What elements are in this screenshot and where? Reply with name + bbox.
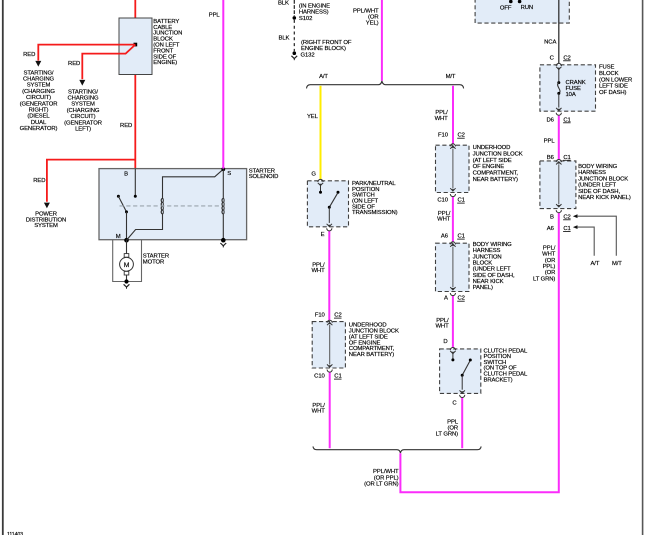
svg-text:NEAR BATTERY): NEAR BATTERY): [349, 352, 394, 358]
svg-text:BLK: BLK: [278, 0, 289, 6]
svg-text:SIDE OF DASH,: SIDE OF DASH,: [578, 189, 620, 195]
svg-text:PPL/WHT: PPL/WHT: [353, 8, 379, 14]
svg-text:FUSE: FUSE: [599, 65, 614, 71]
svg-text:S: S: [227, 171, 231, 177]
svg-text:C10: C10: [314, 374, 325, 380]
svg-text:(OR LT GRN): (OR LT GRN): [364, 482, 398, 488]
svg-text:NEAR KICK: NEAR KICK: [473, 279, 504, 285]
svg-text:(GENERATOR: (GENERATOR: [64, 120, 102, 126]
svg-text:CIRCUIT): CIRCUIT): [26, 95, 51, 101]
svg-text:ENGINE): ENGINE): [153, 60, 177, 66]
svg-text:PPL: PPL: [544, 139, 556, 145]
svg-text:LT GRN): LT GRN): [436, 432, 458, 438]
svg-text:HARNESS): HARNESS): [299, 9, 329, 15]
svg-text:E: E: [321, 232, 325, 238]
svg-text:YEL: YEL: [307, 114, 319, 120]
svg-text:A6: A6: [441, 234, 449, 240]
svg-text:(CHARGING: (CHARGING: [67, 108, 100, 114]
svg-text:WHT: WHT: [437, 217, 451, 223]
svg-text:B: B: [124, 171, 128, 177]
svg-text:PPL): PPL): [543, 264, 556, 270]
svg-text:M/T: M/T: [446, 74, 456, 80]
svg-text:RUN: RUN: [521, 5, 533, 11]
svg-text:OF DASH): OF DASH): [599, 90, 626, 96]
svg-text:OFF: OFF: [500, 5, 512, 11]
svg-text:G: G: [311, 172, 316, 178]
svg-text:(UNDER LEFT: (UNDER LEFT: [578, 183, 616, 189]
svg-text:(OR: (OR: [368, 15, 379, 21]
svg-text:SYSTEM: SYSTEM: [71, 102, 95, 108]
svg-text:PPL/: PPL/: [543, 245, 556, 251]
svg-text:BODY WIRING: BODY WIRING: [578, 164, 618, 170]
svg-text:RED: RED: [68, 61, 80, 67]
svg-text:SYSTEM: SYSTEM: [27, 83, 51, 89]
svg-text:YEL): YEL): [366, 21, 379, 27]
svg-text:D6: D6: [546, 117, 554, 123]
svg-text:MOTOR: MOTOR: [143, 260, 164, 266]
svg-text:PANEL): PANEL): [473, 285, 493, 291]
svg-text:PPL: PPL: [447, 419, 459, 425]
svg-text:WHT: WHT: [312, 409, 326, 415]
svg-text:(OR: (OR: [448, 426, 459, 432]
svg-text:CHARGING: CHARGING: [68, 96, 99, 102]
svg-text:SOLENOID: SOLENOID: [249, 174, 279, 180]
svg-text:LEFT): LEFT): [75, 127, 91, 133]
svg-text:PPL/WHT: PPL/WHT: [373, 469, 399, 475]
svg-text:BLOCK: BLOCK: [473, 260, 493, 266]
svg-text:(OR PPL): (OR PPL): [374, 475, 399, 481]
svg-text:F10: F10: [438, 133, 449, 139]
svg-text:A/T: A/T: [590, 261, 599, 267]
svg-text:HARNESS: HARNESS: [473, 248, 501, 254]
svg-text:RED: RED: [33, 178, 45, 184]
svg-text:WHT: WHT: [542, 252, 556, 258]
svg-text:NCA: NCA: [544, 40, 556, 46]
svg-text:UNDERHOOD: UNDERHOOD: [473, 145, 511, 151]
svg-text:(OR: (OR: [545, 258, 556, 264]
svg-text:A6: A6: [547, 226, 555, 232]
svg-text:LEFT SIDE: LEFT SIDE: [599, 84, 628, 90]
svg-text:WHT: WHT: [435, 324, 449, 330]
svg-text:GENERATOR): GENERATOR): [20, 126, 58, 132]
svg-text:PPL: PPL: [209, 13, 221, 19]
svg-text:BLK: BLK: [279, 36, 290, 42]
svg-text:M: M: [116, 234, 121, 240]
svg-text:RIGHT): RIGHT): [29, 108, 49, 114]
svg-text:(GENERATOR: (GENERATOR: [20, 101, 58, 107]
svg-text:BLOCK: BLOCK: [599, 71, 619, 77]
svg-text:STARTING/: STARTING/: [68, 89, 98, 95]
svg-text:JUNCTION: JUNCTION: [473, 254, 502, 260]
svg-text:STARTING/: STARTING/: [24, 70, 54, 76]
svg-text:OF ENGINE: OF ENGINE: [473, 164, 505, 170]
svg-text:D: D: [443, 339, 447, 345]
svg-text:(ON LOWER: (ON LOWER: [599, 77, 632, 83]
svg-text:C10: C10: [437, 198, 448, 204]
svg-text:A: A: [444, 296, 448, 302]
svg-text:G132: G132: [301, 52, 315, 58]
svg-text:WHT: WHT: [311, 268, 325, 274]
svg-text:B: B: [550, 214, 554, 220]
svg-text:JUNCTION BLOCK: JUNCTION BLOCK: [578, 176, 628, 182]
svg-text:HARNESS: HARNESS: [578, 170, 606, 176]
svg-text:S102: S102: [299, 16, 312, 22]
svg-text:10A: 10A: [566, 92, 576, 98]
svg-text:(CHARGING: (CHARGING: [22, 89, 55, 95]
svg-text:(DIESEL: (DIESEL: [27, 114, 50, 120]
svg-text:JUNCTION BLOCK: JUNCTION BLOCK: [473, 151, 523, 157]
svg-text:LT GRN): LT GRN): [533, 276, 555, 282]
svg-text:(UNDER LEFT: (UNDER LEFT: [473, 267, 511, 273]
svg-text:BODY WIRING: BODY WIRING: [473, 242, 513, 248]
svg-text:(OR: (OR: [545, 270, 556, 276]
svg-text:RED: RED: [120, 123, 132, 129]
svg-text:NEAR KICK PANEL): NEAR KICK PANEL): [578, 195, 631, 201]
svg-text:F10: F10: [315, 313, 326, 319]
svg-text:SIDE OF DASH,: SIDE OF DASH,: [473, 273, 515, 279]
svg-text:BRACKET): BRACKET): [484, 377, 513, 383]
svg-text:NEAR BATTERY): NEAR BATTERY): [473, 177, 518, 183]
svg-text:B6: B6: [547, 155, 555, 161]
svg-text:COMPARTMENT,: COMPARTMENT,: [473, 171, 519, 177]
svg-text:SYSTEM: SYSTEM: [34, 223, 58, 229]
svg-text:WHT: WHT: [435, 116, 449, 122]
svg-text:RED: RED: [23, 52, 35, 58]
svg-text:A/T: A/T: [319, 74, 328, 80]
svg-text:DUAL: DUAL: [31, 120, 47, 126]
svg-text:TRANSMISSION): TRANSMISSION): [352, 210, 398, 216]
svg-text:(AT LEFT SIDE: (AT LEFT SIDE: [473, 158, 512, 164]
svg-text:CHARGING: CHARGING: [23, 77, 54, 83]
svg-text:CIRCUIT): CIRCUIT): [70, 114, 95, 120]
svg-text:ENGINE BLOCK): ENGINE BLOCK): [301, 46, 346, 52]
svg-text:M: M: [124, 262, 130, 269]
svg-text:M/T: M/T: [612, 261, 622, 267]
